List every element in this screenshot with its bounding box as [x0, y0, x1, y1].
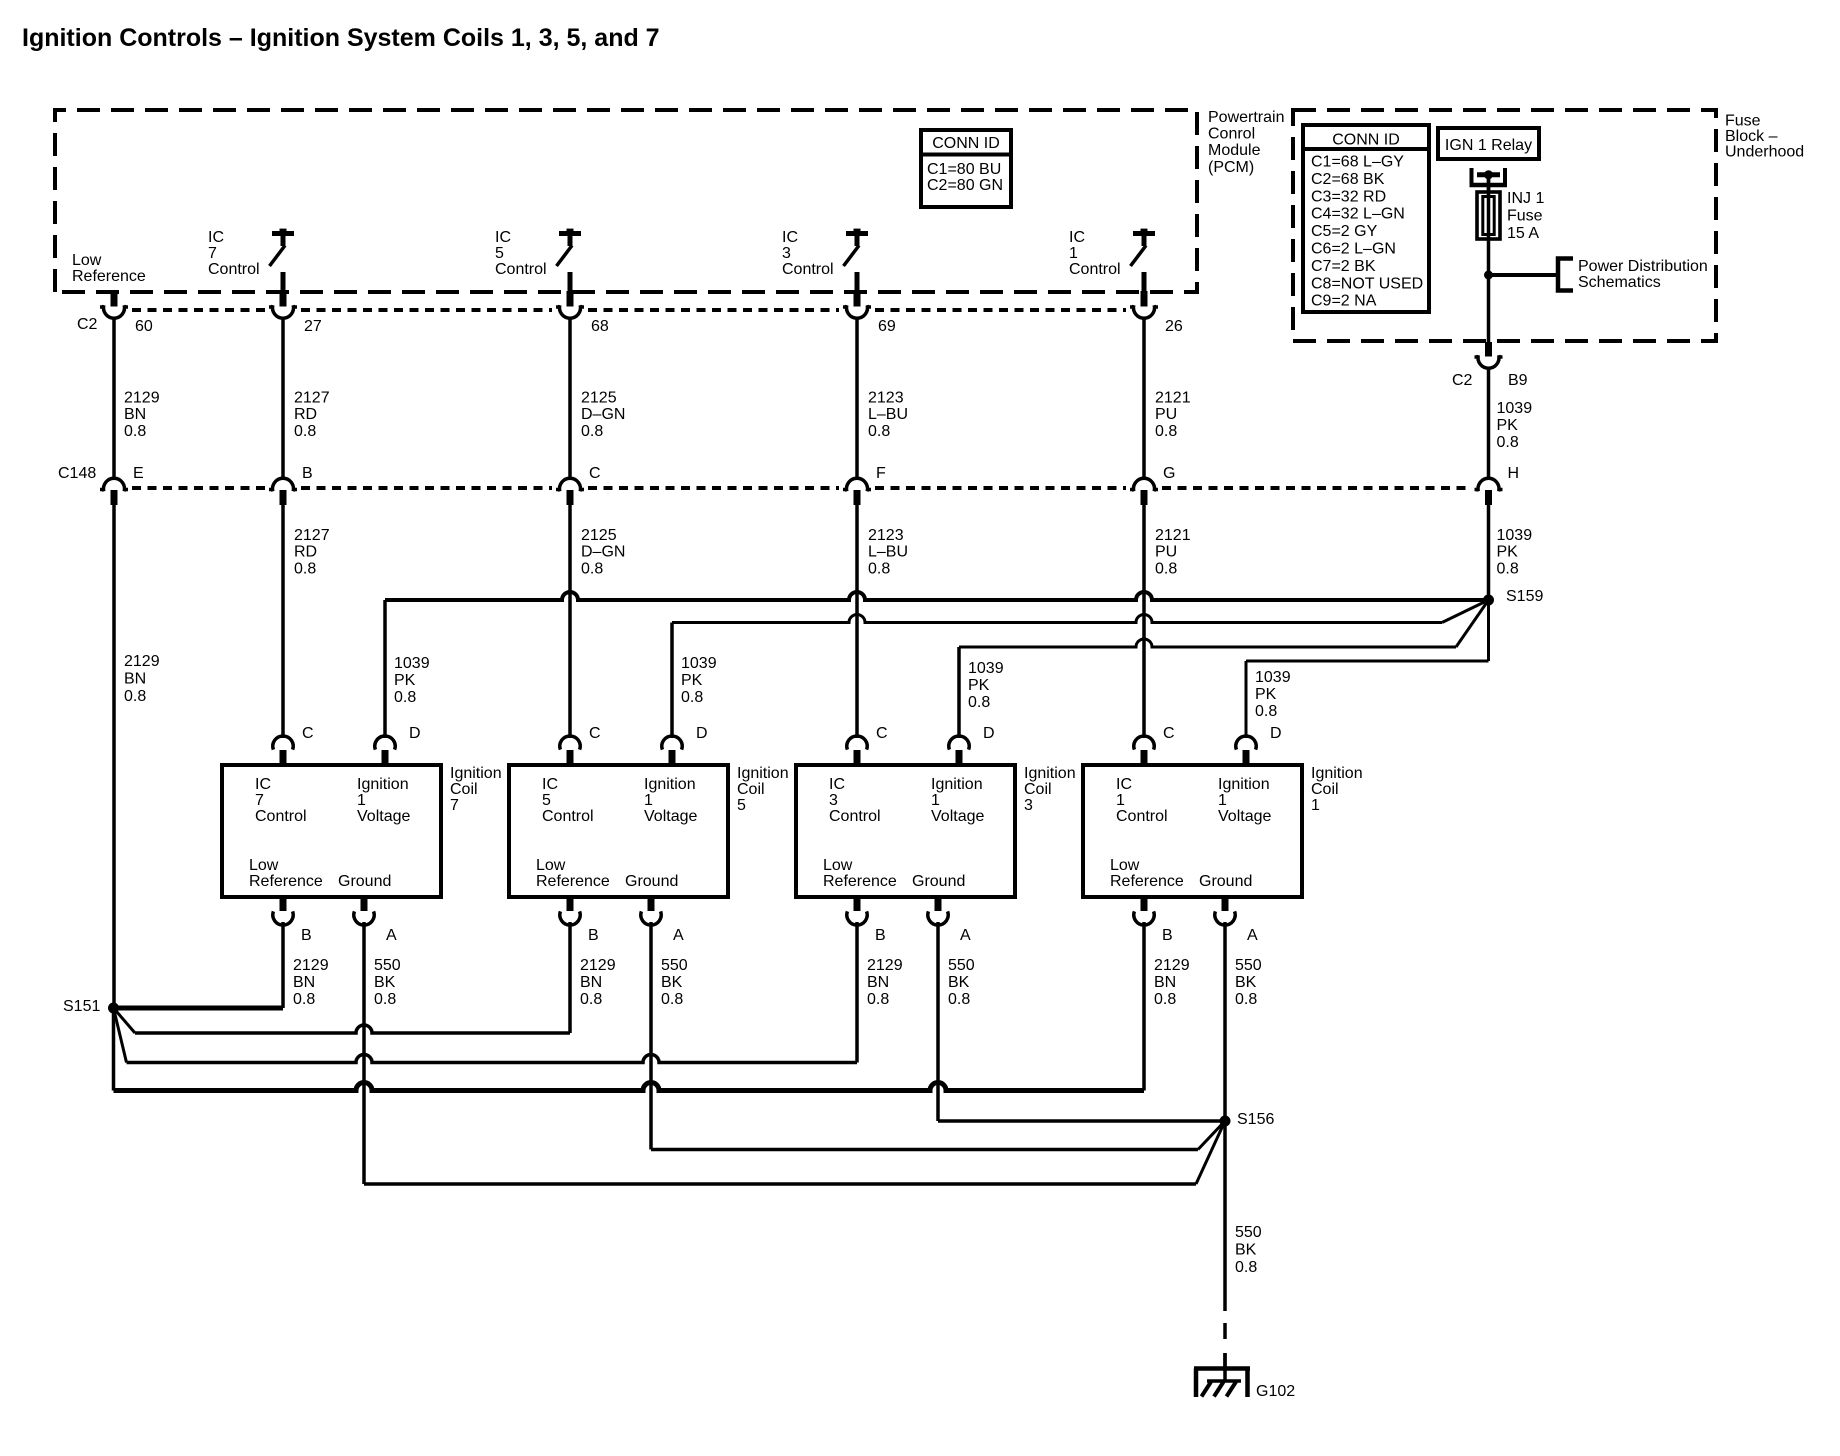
svg-text:Ground: Ground [625, 873, 678, 890]
svg-text:IC: IC [782, 229, 798, 246]
pin label C [589, 465, 601, 482]
svg-text:0.8: 0.8 [868, 560, 890, 577]
driver IC 7 Control [270, 229, 295, 293]
svg-text:Ignition: Ignition [931, 776, 983, 793]
svg-text:G: G [1163, 465, 1175, 482]
wire 2129 BN 0.8 (low reference, upper) [112, 317, 116, 478]
ignition coil 5 box [509, 765, 728, 897]
connector C148 pin E [100, 478, 128, 505]
svg-text:Reference: Reference [823, 873, 897, 890]
dashed wire to G102 [1223, 1323, 1227, 1370]
coil 1 box text IC 1 Control [1116, 776, 1168, 825]
coil 7 box text Ignition 1 Voltage [357, 776, 410, 825]
power distribution label [1578, 258, 1708, 291]
svg-text:Reference: Reference [1110, 873, 1184, 890]
svg-text:A: A [960, 927, 971, 944]
svg-text:0.8: 0.8 [580, 991, 602, 1008]
wire 2121 PU 0.8 (C148 to coil 1 pin C) [1142, 505, 1146, 738]
svg-text:0.8: 0.8 [394, 689, 416, 706]
pin label C [876, 725, 888, 742]
svg-text:Low: Low [249, 857, 279, 874]
relay IGN 1 Relay box [1438, 128, 1539, 159]
wire 1039 PK 0.8 (fuse to C148) [1487, 367, 1491, 478]
wire 2123 L–BU 0.8 (C148 to coil 3 pin C) [855, 505, 859, 738]
svg-text:0.8: 0.8 [581, 560, 603, 577]
pin label A [386, 927, 397, 944]
svg-text:IC: IC [829, 776, 845, 793]
svg-text:1039: 1039 [1497, 400, 1533, 417]
coil 1 box text Low Reference [1110, 857, 1184, 890]
svg-text:69: 69 [878, 318, 896, 335]
svg-text:1: 1 [1116, 792, 1125, 809]
svg-text:C6=2 L–GN: C6=2 L–GN [1311, 241, 1396, 258]
svg-text:Voltage: Voltage [1218, 808, 1271, 825]
svg-text:Control: Control [495, 261, 547, 278]
svg-text:CONN ID: CONN ID [932, 135, 1000, 152]
svg-text:PK: PK [1497, 544, 1519, 561]
label Ignition Coil 5 [737, 765, 789, 814]
PCM module dashed box [55, 110, 1197, 292]
coil 5 pin B connector [560, 896, 580, 925]
svg-text:C2: C2 [77, 316, 98, 333]
pin label C2 B9 [1452, 372, 1528, 389]
connector C2 label [77, 316, 98, 333]
label 2127 RD 0.8 (lower) [294, 527, 330, 577]
wire 2129 BN coil 1 B to S151 [114, 922, 1145, 1091]
coil 3 pin A connector [928, 896, 948, 925]
label IC 3 Control [782, 229, 834, 278]
svg-text:BN: BN [124, 671, 146, 688]
pin label B [588, 927, 599, 944]
svg-text:D–GN: D–GN [581, 544, 625, 561]
svg-text:Voltage: Voltage [644, 808, 697, 825]
svg-text:E: E [133, 465, 144, 482]
wire 550 BK coil 3 A to S156 [938, 922, 1225, 1121]
label 2123 L–BU 0.8 (lower) [868, 527, 908, 577]
connector C148 dashed line [132, 486, 1471, 490]
label S159 [1506, 588, 1543, 605]
label Ignition Coil 7 [450, 765, 502, 814]
svg-text:2121: 2121 [1155, 390, 1191, 407]
svg-text:D: D [409, 725, 421, 742]
svg-text:C5=2 GY: C5=2 GY [1311, 223, 1378, 240]
svg-text:C: C [876, 725, 888, 742]
coil 3 pin B connector [847, 896, 867, 925]
svg-text:0.8: 0.8 [868, 423, 890, 440]
svg-text:1: 1 [931, 792, 940, 809]
coil 5 box text IC 5 Control [542, 776, 594, 825]
svg-text:IC: IC [542, 776, 558, 793]
wire 550 BK coil 7 A to S156 [364, 922, 1225, 1184]
label Ignition Coil 1 [1311, 765, 1363, 814]
svg-text:C2=80 GN: C2=80 GN [927, 177, 1003, 194]
driver IC 3 Control [844, 229, 869, 293]
label 2129 BN 0.8 (lower) [124, 653, 160, 705]
label 1039 PK 0.8 (coil 1 D) [1255, 669, 1291, 720]
label Ignition Coil 3 [1024, 765, 1076, 814]
label 2121 PU 0.8 [1155, 390, 1191, 440]
svg-text:2129: 2129 [293, 957, 329, 974]
label G102 [1256, 1383, 1295, 1400]
svg-text:Fuse: Fuse [1507, 208, 1543, 225]
svg-text:IC: IC [495, 229, 511, 246]
svg-text:C4=32 L–GN: C4=32 L–GN [1311, 206, 1405, 223]
fuse block label [1725, 113, 1804, 161]
svg-text:BK: BK [948, 974, 970, 991]
label IC 1 Control [1069, 229, 1121, 278]
coil 7 pin A connector [354, 896, 374, 925]
pin label C [1163, 725, 1175, 742]
pin label B [1162, 927, 1173, 944]
svg-text:Ignition: Ignition [644, 776, 696, 793]
INJ 1 fuse value label [1507, 190, 1544, 242]
splice S151 [108, 1003, 119, 1014]
svg-text:0.8: 0.8 [661, 991, 683, 1008]
svg-text:Control: Control [1069, 261, 1121, 278]
svg-text:B: B [875, 927, 886, 944]
label Low Reference [72, 252, 146, 285]
svg-text:PK: PK [1255, 686, 1277, 703]
svg-text:C1=68 L–GY: C1=68 L–GY [1311, 154, 1404, 171]
coil 5 box text Low Reference [536, 857, 610, 890]
svg-text:B: B [1162, 927, 1173, 944]
svg-text:RD: RD [294, 544, 317, 561]
label 550 BK 0.8 (coil 3 A) [948, 957, 975, 1008]
svg-text:BK: BK [1235, 974, 1257, 991]
coil 3 pin C connector [847, 736, 867, 766]
power distribution bracket [1558, 259, 1573, 291]
svg-text:PK: PK [394, 672, 416, 689]
svg-text:0.8: 0.8 [124, 423, 146, 440]
label 2125 D–GN 0.8 (lower) [581, 527, 625, 577]
fuse block dashed box [1293, 110, 1716, 341]
svg-text:Ignition: Ignition [450, 765, 502, 782]
wire 2121 PU 0.8 (upper) [1142, 317, 1146, 478]
svg-text:27: 27 [304, 318, 322, 335]
wire 2123 L–BU 0.8 (upper) [855, 317, 859, 478]
svg-text:Reference: Reference [536, 873, 610, 890]
svg-text:IC: IC [1069, 229, 1085, 246]
coil 3 box text Ground [912, 873, 965, 890]
coil 1 box text Ignition 1 Voltage [1218, 776, 1271, 825]
svg-text:3: 3 [829, 792, 838, 809]
wire 2129 BN coil 3 B to S151 [114, 922, 858, 1063]
svg-text:550: 550 [374, 957, 401, 974]
pin label A [960, 927, 971, 944]
svg-text:BN: BN [124, 406, 146, 423]
connector C148 pin B [269, 478, 297, 505]
svg-text:0.8: 0.8 [1155, 560, 1177, 577]
wire 1039 PK branch to coil 5 pin D [672, 600, 1489, 738]
connector C2 pin 27 (IC 7) [269, 291, 297, 318]
label 2121 PU 0.8 (lower) [1155, 527, 1191, 577]
svg-text:5: 5 [542, 792, 551, 809]
label 1039 PK 0.8 (coil 5 D) [681, 655, 717, 706]
pin label 27 [304, 318, 322, 335]
svg-text:550: 550 [1235, 957, 1262, 974]
node power junction [1484, 271, 1493, 280]
svg-text:Ground: Ground [1199, 873, 1252, 890]
svg-text:C2: C2 [1452, 372, 1473, 389]
svg-text:2127: 2127 [294, 390, 330, 407]
svg-text:Ground: Ground [912, 873, 965, 890]
ground G102 [1194, 1353, 1250, 1397]
pin label G [1163, 465, 1175, 482]
svg-text:BN: BN [580, 974, 602, 991]
svg-text:0.8: 0.8 [294, 423, 316, 440]
svg-text:1039: 1039 [1255, 669, 1291, 686]
coil 3 pin D connector [949, 736, 969, 766]
svg-text:CONN ID: CONN ID [1332, 132, 1400, 149]
svg-text:PK: PK [968, 677, 990, 694]
svg-text:IGN 1 Relay: IGN 1 Relay [1445, 137, 1532, 154]
ignition coil 1 box [1083, 765, 1302, 897]
svg-text:BN: BN [1154, 974, 1176, 991]
svg-text:A: A [386, 927, 397, 944]
wire 2127 RD 0.8 (upper) [281, 317, 285, 478]
svg-text:Underhood: Underhood [1725, 144, 1804, 161]
ignition coil 7 box [222, 765, 441, 897]
pin label D [696, 725, 708, 742]
label 1039 PK 0.8 (coil 3 D) [968, 660, 1004, 711]
svg-text:H: H [1508, 465, 1520, 482]
svg-text:1: 1 [1218, 792, 1227, 809]
svg-text:C148: C148 [58, 465, 96, 482]
svg-text:1: 1 [357, 792, 366, 809]
label 550 BK 0.8 (coil 1 A) [1235, 957, 1262, 1008]
svg-text:Schematics: Schematics [1578, 274, 1661, 291]
svg-text:BN: BN [867, 974, 889, 991]
PCM CONN ID table [921, 130, 1011, 207]
svg-text:3: 3 [1024, 797, 1033, 814]
svg-text:Coil: Coil [1311, 781, 1339, 798]
svg-text:2129: 2129 [124, 390, 160, 407]
coil 1 box text Ground [1199, 873, 1252, 890]
wire 1039 PK branch to coil 1 pin D [1246, 600, 1489, 738]
label S151 [63, 998, 100, 1015]
pin label E [133, 465, 144, 482]
svg-text:Low: Low [823, 857, 853, 874]
connector C2 pin 68 (IC 5) [556, 291, 584, 318]
coil 5 pin A connector [641, 896, 661, 925]
svg-text:L–BU: L–BU [868, 544, 908, 561]
svg-text:2123: 2123 [868, 527, 904, 544]
svg-text:2129: 2129 [867, 957, 903, 974]
svg-text:1039: 1039 [1497, 527, 1533, 544]
svg-text:Control: Control [829, 808, 881, 825]
svg-text:26: 26 [1165, 318, 1183, 335]
svg-text:68: 68 [591, 318, 609, 335]
svg-text:BK: BK [661, 974, 683, 991]
label 550 BK 0.8 (coil 5 A) [661, 957, 688, 1008]
svg-text:2129: 2129 [1154, 957, 1190, 974]
connector C148 pin G [1130, 478, 1158, 505]
title [22, 24, 660, 52]
svg-text:0.8: 0.8 [1235, 1259, 1257, 1276]
wire 550 BK coil 1 A through S156 to ground [1223, 922, 1227, 1311]
svg-text:0.8: 0.8 [124, 688, 146, 705]
svg-text:2127: 2127 [294, 527, 330, 544]
label 1039 PK 0.8 (below C148) [1497, 527, 1533, 577]
label 2123 L–BU 0.8 [868, 390, 908, 440]
svg-text:IC: IC [208, 229, 224, 246]
coil 1 pin D connector [1236, 736, 1256, 766]
relay contact [1470, 168, 1508, 193]
svg-text:Reference: Reference [72, 268, 146, 285]
svg-text:2123: 2123 [868, 390, 904, 407]
svg-text:B: B [588, 927, 599, 944]
svg-text:IC: IC [1116, 776, 1132, 793]
svg-text:D: D [983, 725, 995, 742]
svg-text:BK: BK [374, 974, 396, 991]
svg-text:C2=68 BK: C2=68 BK [1311, 171, 1385, 188]
wire 1039 PK 0.8 (C148 to S159) [1487, 505, 1491, 600]
wire 2125 D–GN 0.8 (C148 to coil 5 pin C) [568, 505, 572, 738]
svg-text:Coil: Coil [450, 781, 478, 798]
svg-text:G102: G102 [1256, 1383, 1295, 1400]
svg-text:Fuse: Fuse [1725, 113, 1761, 130]
wire junction to power distribution tap [1489, 273, 1558, 277]
svg-text:L–BU: L–BU [868, 406, 908, 423]
svg-text:0.8: 0.8 [948, 991, 970, 1008]
connector C2 pin 60 (Low Reference) [100, 291, 128, 318]
svg-text:0.8: 0.8 [1497, 434, 1519, 451]
coil 7 pin B connector [273, 896, 293, 925]
svg-text:2129: 2129 [124, 653, 160, 670]
svg-text:S159: S159 [1506, 588, 1543, 605]
svg-text:B9: B9 [1508, 372, 1528, 389]
label 2129 BN 0.8 (coil 5 B) [580, 957, 616, 1008]
wire 1039 PK branch to coil 3 pin D [959, 600, 1489, 738]
svg-text:BK: BK [1235, 1242, 1257, 1259]
svg-text:60: 60 [135, 318, 153, 335]
svg-text:B: B [301, 927, 312, 944]
svg-text:Block –: Block – [1725, 128, 1778, 145]
splice S159 [1483, 595, 1494, 606]
coil 7 box text IC 7 Control [255, 776, 307, 825]
pin label D [1270, 725, 1282, 742]
label 2129 BN 0.8 (coil 1 B) [1154, 957, 1190, 1008]
svg-text:C8=NOT USED: C8=NOT USED [1311, 275, 1423, 292]
pin label H [1508, 465, 1520, 482]
svg-text:Control: Control [1116, 808, 1168, 825]
coil 7 box text Ground [338, 873, 391, 890]
svg-text:0.8: 0.8 [1155, 423, 1177, 440]
svg-text:C1=80 BU: C1=80 BU [927, 161, 1001, 178]
label 1039 PK 0.8 (coil 7 D) [394, 655, 430, 706]
connector C148 pin F [843, 478, 871, 505]
svg-text:A: A [1247, 927, 1258, 944]
wire 2125 D–GN 0.8 (upper) [568, 317, 572, 478]
pin label B [301, 927, 312, 944]
svg-text:2125: 2125 [581, 527, 617, 544]
svg-text:0.8: 0.8 [1255, 703, 1277, 720]
wire 2129 BN coil 7 B to S151 [114, 922, 284, 1008]
svg-text:Control: Control [208, 261, 260, 278]
connector C2 dotted line [132, 308, 1126, 312]
svg-text:PU: PU [1155, 406, 1177, 423]
pin label 69 [878, 318, 896, 335]
pin label B [875, 927, 886, 944]
svg-text:D–GN: D–GN [581, 406, 625, 423]
label IC 5 Control [495, 229, 547, 278]
svg-text:D: D [696, 725, 708, 742]
splice S156 [1220, 1116, 1231, 1127]
svg-text:Coil: Coil [737, 781, 765, 798]
svg-text:Conrol: Conrol [1208, 126, 1255, 143]
driver IC 5 Control [557, 229, 582, 293]
svg-text:7: 7 [208, 245, 217, 262]
connector C2 pin 69 (IC 3) [843, 291, 871, 318]
wire 2127 RD 0.8 (C148 to coil 7 pin C) [281, 505, 285, 738]
svg-text:C3=32 RD: C3=32 RD [1311, 188, 1386, 205]
connector C148 pin C [556, 478, 584, 505]
wire 1039 PK branch to coil 7 pin D [385, 592, 1489, 738]
svg-text:Control: Control [255, 808, 307, 825]
svg-text:Ignition: Ignition [1024, 765, 1076, 782]
svg-text:2125: 2125 [581, 390, 617, 407]
coil 5 box text Ignition 1 Voltage [644, 776, 697, 825]
svg-text:1: 1 [644, 792, 653, 809]
svg-text:Control: Control [542, 808, 594, 825]
svg-text:0.8: 0.8 [681, 689, 703, 706]
svg-text:Low: Low [1110, 857, 1140, 874]
svg-text:1: 1 [1311, 797, 1320, 814]
svg-text:Reference: Reference [249, 873, 323, 890]
svg-text:550: 550 [948, 957, 975, 974]
svg-text:C: C [589, 465, 601, 482]
coil 1 pin A connector [1215, 896, 1235, 925]
connector C2 pin B9 (fuse block) [1475, 342, 1503, 368]
ignition coil 3 box [796, 765, 1015, 897]
svg-text:B: B [302, 465, 313, 482]
coil 5 box text Ground [625, 873, 678, 890]
pin label D [409, 725, 421, 742]
pin label A [1247, 927, 1258, 944]
svg-text:C: C [302, 725, 314, 742]
svg-text:Voltage: Voltage [931, 808, 984, 825]
label 1039 PK 0.8 [1497, 400, 1533, 451]
driver IC 1 Control [1131, 229, 1156, 293]
PCM module label [1208, 109, 1284, 176]
svg-text:2129: 2129 [580, 957, 616, 974]
svg-text:Ignition: Ignition [1218, 776, 1270, 793]
svg-text:INJ 1: INJ 1 [1507, 190, 1544, 207]
svg-text:Power Distribution: Power Distribution [1578, 258, 1708, 275]
svg-text:S151: S151 [63, 998, 100, 1015]
svg-text:Voltage: Voltage [357, 808, 410, 825]
label 2129 BN 0.8 (coil 3 B) [867, 957, 903, 1008]
label 550 BK 0.8 (to G102) [1235, 1224, 1262, 1276]
wire fuse output to connector C2-B9 [1487, 275, 1491, 342]
coil 5 pin D connector [662, 736, 682, 766]
wire 2129 BN coil 5 B to S151 [114, 922, 571, 1033]
svg-text:Powertrain: Powertrain [1208, 109, 1284, 126]
label 2125 D–GN 0.8 [581, 390, 625, 440]
svg-text:550: 550 [1235, 1224, 1262, 1241]
svg-text:Ignition Controls – Ignition S: Ignition Controls – Ignition System Coil… [22, 24, 660, 52]
svg-text:Ignition: Ignition [357, 776, 409, 793]
svg-text:7: 7 [450, 797, 459, 814]
coil 3 box text IC 3 Control [829, 776, 881, 825]
svg-text:PK: PK [1497, 417, 1519, 434]
svg-text:PK: PK [681, 672, 703, 689]
svg-text:5: 5 [737, 797, 746, 814]
svg-text:Low: Low [72, 252, 102, 269]
svg-text:A: A [673, 927, 684, 944]
coil 3 box text Low Reference [823, 857, 897, 890]
svg-text:0.8: 0.8 [1497, 560, 1519, 577]
